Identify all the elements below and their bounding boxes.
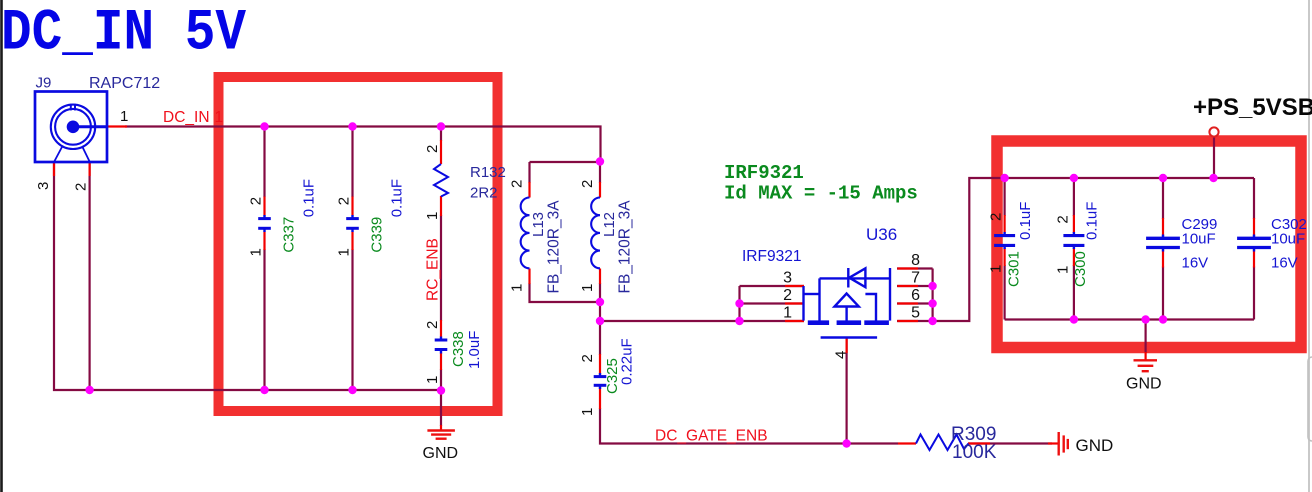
svg-text:C338: C338 (450, 331, 467, 367)
svg-text:100K: 100K (952, 442, 997, 463)
svg-text:8: 8 (911, 252, 920, 269)
svg-text:C300: C300 (1072, 251, 1089, 287)
svg-text:2: 2 (783, 287, 792, 304)
svg-text:2: 2 (248, 197, 265, 205)
svg-text:DC_IN: DC_IN (163, 109, 210, 126)
svg-text:1: 1 (215, 109, 224, 126)
svg-text:2: 2 (988, 213, 1005, 221)
svg-text:DC_IN 5V: DC_IN 5V (1, 2, 246, 67)
svg-text:1: 1 (424, 376, 441, 384)
svg-text:C325: C325 (604, 358, 621, 394)
svg-text:2: 2 (336, 197, 353, 205)
svg-text:6: 6 (911, 287, 920, 304)
svg-text:GND: GND (423, 445, 459, 462)
svg-text:1: 1 (579, 284, 596, 292)
svg-text:16V: 16V (1271, 255, 1298, 272)
svg-text:+PS_5VSB: +PS_5VSB (1193, 94, 1312, 121)
svg-text:1: 1 (988, 265, 1005, 273)
svg-text:C339: C339 (369, 217, 386, 253)
svg-text:10uF: 10uF (1182, 231, 1216, 248)
svg-text:2R2: 2R2 (470, 185, 498, 202)
svg-text:1: 1 (509, 284, 526, 292)
svg-text:GND: GND (1076, 436, 1114, 455)
svg-text:RAPC712: RAPC712 (89, 75, 160, 92)
svg-text:2: 2 (424, 145, 441, 153)
svg-text:1: 1 (783, 305, 792, 322)
svg-text:Id MAX = -15 Amps: Id MAX = -15 Amps (724, 182, 918, 204)
svg-text:GND: GND (1126, 376, 1162, 393)
svg-text:16V: 16V (1182, 255, 1209, 272)
svg-text:R132: R132 (470, 164, 506, 181)
svg-text:2: 2 (1055, 215, 1072, 223)
svg-text:C301: C301 (1006, 251, 1023, 287)
svg-text:FB_120R_3A: FB_120R_3A (546, 200, 563, 294)
svg-text:2: 2 (579, 354, 596, 362)
svg-text:2: 2 (73, 183, 90, 191)
svg-text:2: 2 (509, 180, 526, 188)
svg-text:C337: C337 (281, 217, 298, 253)
svg-text:L12: L12 (601, 212, 618, 237)
svg-text:1: 1 (424, 212, 441, 220)
svg-text:FB_120R_3A: FB_120R_3A (617, 200, 634, 294)
svg-text:5: 5 (911, 305, 920, 322)
svg-text:0.22uF: 0.22uF (619, 338, 636, 385)
svg-text:IRF9321: IRF9321 (724, 162, 804, 184)
svg-text:1: 1 (1055, 266, 1072, 274)
svg-text:RC_ENB: RC_ENB (425, 238, 442, 301)
svg-text:IRF9321: IRF9321 (742, 248, 801, 265)
svg-text:2: 2 (424, 321, 441, 329)
svg-text:1: 1 (336, 248, 353, 256)
svg-text:U36: U36 (866, 225, 897, 244)
svg-text:1: 1 (579, 408, 596, 416)
svg-text:0.1uF: 0.1uF (301, 179, 318, 217)
svg-text:DC_GATE_ENB: DC_GATE_ENB (655, 428, 768, 445)
svg-text:0.1uF: 0.1uF (1084, 202, 1101, 240)
svg-text:1: 1 (120, 108, 128, 125)
svg-text:L13: L13 (530, 212, 547, 237)
svg-text:10uF: 10uF (1271, 231, 1305, 248)
svg-text:7: 7 (911, 270, 920, 287)
svg-text:3: 3 (35, 182, 52, 190)
svg-text:3: 3 (783, 270, 792, 287)
svg-text:1: 1 (248, 248, 265, 256)
svg-text:4: 4 (833, 351, 850, 359)
svg-text:0.1uF: 0.1uF (389, 179, 406, 217)
svg-text:J9: J9 (36, 75, 52, 92)
svg-text:1.0uF: 1.0uF (466, 331, 483, 369)
svg-text:2: 2 (579, 180, 596, 188)
svg-text:0.1uF: 0.1uF (1017, 202, 1034, 240)
